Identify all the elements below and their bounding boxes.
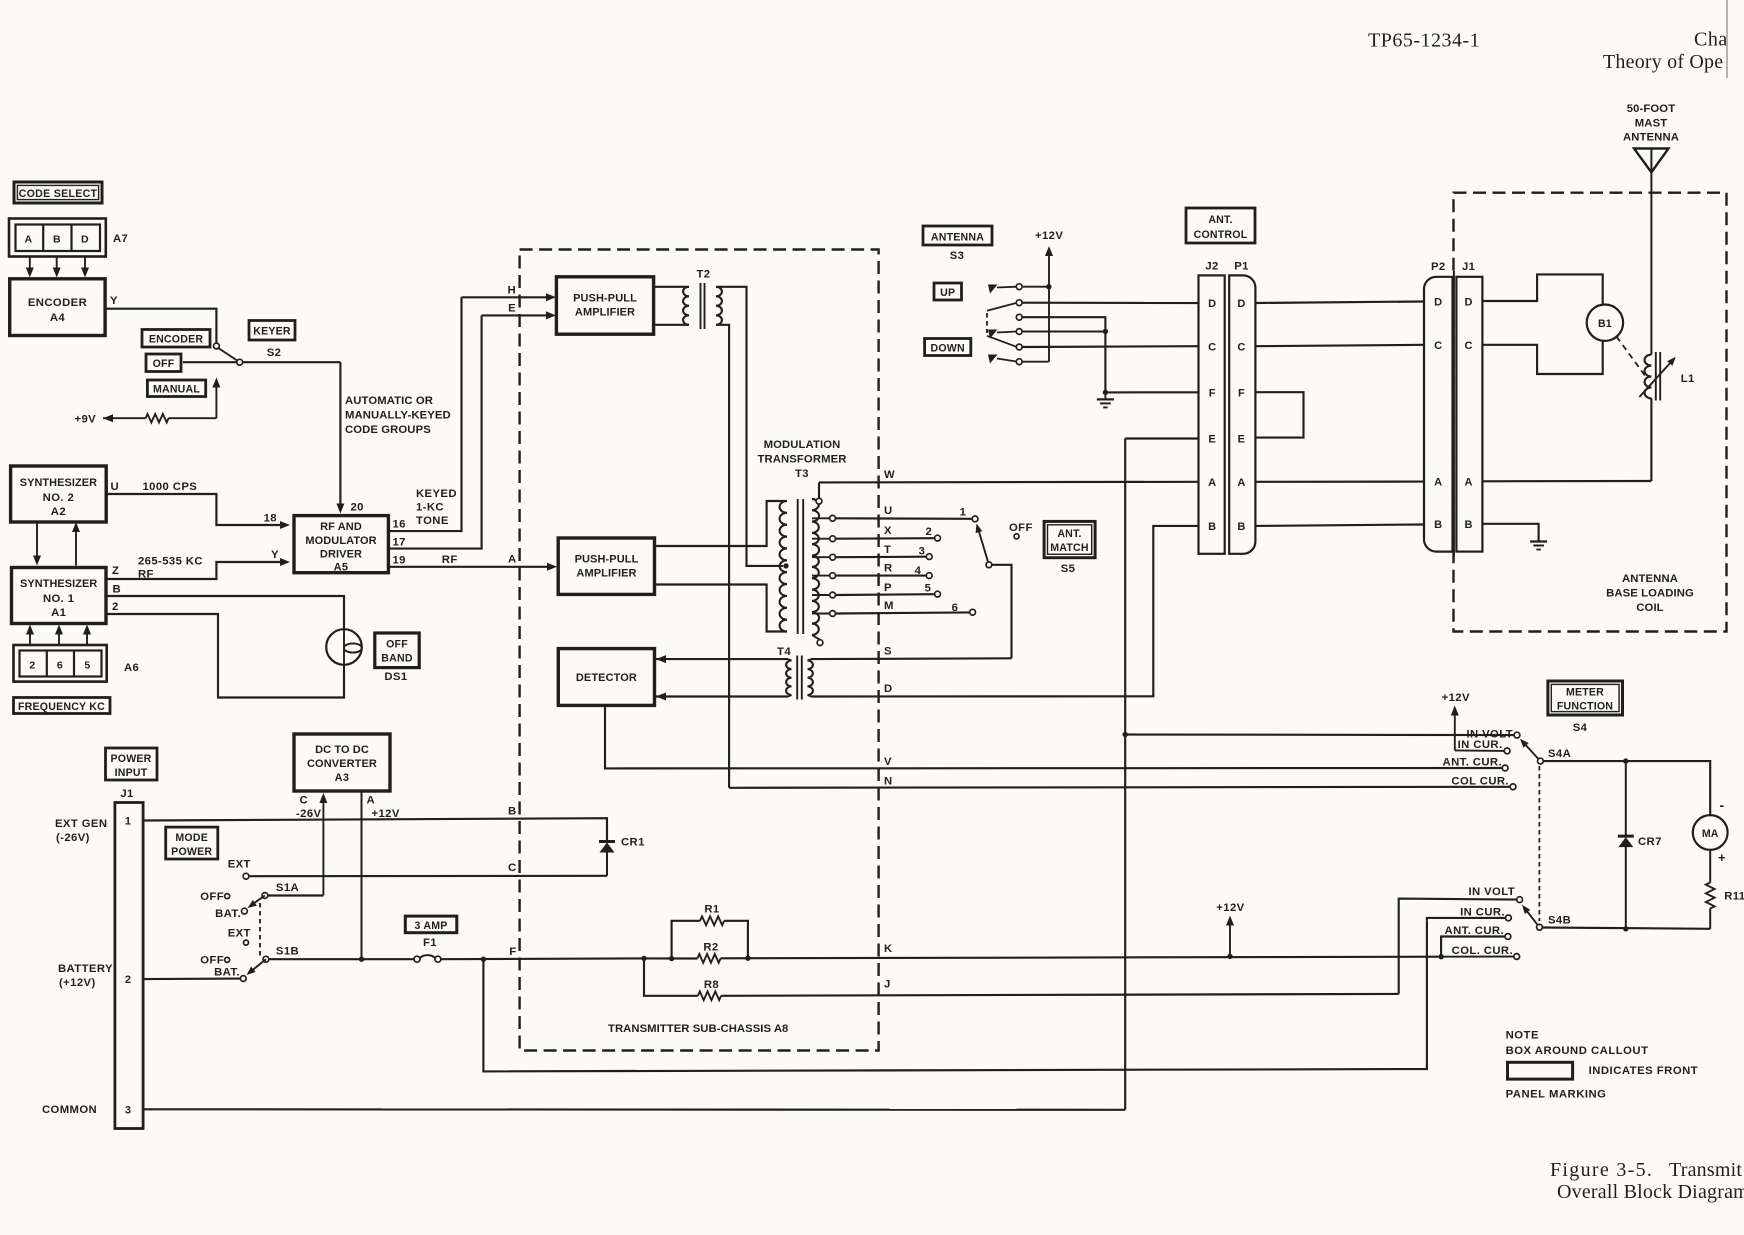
motor B1 <box>1587 305 1623 341</box>
svg-text:3 AMP: 3 AMP <box>415 920 448 932</box>
resistor R2 <box>669 956 674 961</box>
svg-text:TRANSFORMER: TRANSFORMER <box>758 454 847 466</box>
S3 contact 2 wire / net D row <box>1022 302 1198 304</box>
switch S5 contact 3 <box>926 554 932 560</box>
svg-text:L1: L1 <box>1681 373 1695 385</box>
svg-text:D: D <box>1208 298 1216 310</box>
svg-text:S3: S3 <box>950 250 965 262</box>
svg-text:18: 18 <box>264 513 277 525</box>
S3 contact 3 wire to ground bus <box>1022 317 1105 392</box>
OFF BAND label <box>375 633 419 668</box>
svg-text:UP: UP <box>940 287 955 299</box>
svg-text:B: B <box>1208 521 1216 533</box>
svg-text:2: 2 <box>925 526 932 538</box>
svg-text:MAST: MAST <box>1635 118 1667 130</box>
svg-text:-: - <box>1719 797 1724 813</box>
svg-text:3: 3 <box>125 1104 132 1116</box>
S4A IN CUR contact <box>1455 749 1505 752</box>
svg-text:ANTENNA: ANTENNA <box>931 232 984 244</box>
svg-text:INPUT: INPUT <box>115 767 148 779</box>
svg-text:ENCODER: ENCODER <box>149 334 204 346</box>
wire A3 pin A to battery bus <box>361 791 363 959</box>
svg-text:S5: S5 <box>1061 563 1076 575</box>
resistor in +9V line <box>146 414 169 422</box>
wire P1-D to P2-D <box>1255 302 1424 304</box>
svg-text:MANUALLY-KEYED: MANUALLY-KEYED <box>345 410 451 422</box>
wire battery pin 2 to S1B BAT <box>143 978 240 981</box>
transformer T2 primary winding <box>683 287 689 325</box>
svg-text:U: U <box>111 481 120 493</box>
svg-text:S4A: S4A <box>1548 748 1571 760</box>
svg-text:A3: A3 <box>335 772 350 784</box>
svg-text:B: B <box>1465 519 1473 531</box>
wire S4B to meter return <box>1542 928 1710 929</box>
svg-text:16: 16 <box>393 519 406 531</box>
diode CR1 <box>599 840 615 843</box>
T3 tap P <box>812 594 830 596</box>
synthesizer no.1 A1 <box>12 568 107 624</box>
svg-text:BAT.: BAT. <box>214 967 240 979</box>
antenna base loading coil dashed enclosure <box>1454 193 1727 632</box>
svg-text:19: 19 <box>393 555 406 567</box>
svg-text:EXT: EXT <box>228 928 251 940</box>
wire pin 19 RF to push-pull amplifier A <box>388 566 551 568</box>
svg-text:MATCH: MATCH <box>1050 542 1088 554</box>
svg-text:PUSH-PULL: PUSH-PULL <box>575 554 639 566</box>
svg-text:2: 2 <box>112 601 119 613</box>
mechanical link B1 to L1 <box>1617 337 1647 378</box>
frequency wheel assembly A6 <box>14 645 107 682</box>
wire T4 to detector bottom input <box>656 693 666 701</box>
svg-text:F1: F1 <box>423 937 437 949</box>
svg-text:P: P <box>884 582 892 594</box>
svg-text:R11: R11 <box>1724 891 1744 903</box>
svg-text:ANT.: ANT. <box>1057 528 1081 540</box>
svg-text:P1: P1 <box>1234 261 1249 273</box>
svg-text:ANTENNA: ANTENNA <box>1622 573 1678 585</box>
svg-text:F: F <box>1238 388 1245 400</box>
wires A6 to A1 with arrows <box>29 630 31 645</box>
wire A2 to A1 down arrow <box>36 522 38 560</box>
svg-text:C: C <box>1237 341 1245 353</box>
RF and modulator driver A5 <box>294 516 388 573</box>
svg-text:S2: S2 <box>267 347 282 359</box>
transformer T2 secondary winding <box>716 287 722 325</box>
svg-text:COL CUR.: COL CUR. <box>1451 776 1509 788</box>
FREQUENCY KC label <box>14 698 111 714</box>
ANT. CONTROL label <box>1186 208 1255 243</box>
svg-text:D: D <box>1237 298 1245 310</box>
svg-text:N: N <box>884 776 893 788</box>
svg-text:CODE SELECT: CODE SELECT <box>19 188 98 200</box>
svg-text:A4: A4 <box>50 312 66 324</box>
MODE POWER label <box>166 827 218 859</box>
wire amp2 top output to T3 primary top <box>655 501 788 546</box>
METER FUNCTION label <box>1548 681 1623 715</box>
detector <box>558 649 654 706</box>
common wire pin 3 <box>143 1108 1125 1111</box>
S3 pole B arm <box>988 330 998 339</box>
svg-text:KEYED: KEYED <box>416 488 457 500</box>
common return vertical <box>1124 439 1126 1110</box>
svg-text:IN CUR.: IN CUR. <box>1460 907 1505 919</box>
switch S5 contact 5 <box>935 591 941 597</box>
wire E into amplifier <box>482 314 550 316</box>
wire J1-A to L1 <box>1482 480 1651 482</box>
svg-text:MA: MA <box>1702 828 1719 840</box>
svg-text:COL. CUR.: COL. CUR. <box>1452 945 1513 957</box>
svg-text:P2: P2 <box>1431 261 1446 273</box>
svg-text:1000 CPS: 1000 CPS <box>143 481 198 493</box>
svg-text:EXT GEN: EXT GEN <box>55 818 107 830</box>
svg-text:T4: T4 <box>777 646 791 658</box>
svg-text:-26V: -26V <box>296 808 322 820</box>
node encoder contact of S2 <box>214 343 220 349</box>
svg-text:AUTOMATIC OR: AUTOMATIC OR <box>345 395 433 407</box>
svg-text:20: 20 <box>351 502 364 514</box>
svg-text:B: B <box>53 234 61 246</box>
switch S5 contact 2 <box>935 535 941 541</box>
wire amp1 to T2 primary <box>654 286 689 288</box>
wire T4 to detector top input <box>656 655 666 663</box>
switch S5 contact 1 <box>972 516 978 522</box>
svg-text:S4: S4 <box>1573 722 1588 734</box>
MANUAL position label <box>147 380 205 397</box>
T3 tap T <box>812 556 830 558</box>
svg-text:+: + <box>1718 850 1726 865</box>
S3 contact 6 wire to +12V <box>1022 361 1049 363</box>
svg-text:+12V: +12V <box>1442 692 1470 704</box>
wire pin 17 to E <box>388 315 481 548</box>
svg-text:A7: A7 <box>113 233 128 245</box>
svg-text:A1: A1 <box>51 607 66 619</box>
transformer T3 secondary winding <box>812 499 819 635</box>
transformer T4 secondary winding <box>808 661 813 696</box>
svg-text:OFF: OFF <box>200 891 224 903</box>
POWER INPUT label <box>106 748 158 780</box>
svg-text:Y: Y <box>271 549 279 561</box>
svg-text:IN VOLT: IN VOLT <box>1468 886 1515 898</box>
T3 secondary bottom terminal <box>812 635 820 640</box>
svg-text:6: 6 <box>57 660 63 672</box>
code wheel assembly A7 <box>9 219 106 257</box>
net C wire CR1 to S1A EXT <box>249 875 607 878</box>
switch S5 contact 4 <box>926 573 932 579</box>
svg-text:Figure 3-5.: Figure 3-5. <box>1550 1159 1653 1181</box>
switch S5 arm <box>979 530 989 565</box>
svg-text:OFF: OFF <box>200 955 224 967</box>
diode CR7 <box>1625 761 1627 836</box>
svg-text:BOX AROUND CALLOUT: BOX AROUND CALLOUT <box>1506 1045 1649 1057</box>
ANT. MATCH label <box>1044 521 1095 557</box>
svg-text:50-FOOT: 50-FOOT <box>1627 103 1675 115</box>
ENCODER position label <box>142 330 210 348</box>
svg-text:Transmit: Transmit <box>1669 1159 1742 1181</box>
svg-text:BASE LOADING: BASE LOADING <box>1606 588 1694 600</box>
3 AMP label <box>405 916 457 933</box>
svg-text:C: C <box>1465 340 1473 352</box>
svg-text:D: D <box>81 234 89 246</box>
wire pin 16 to H <box>388 297 461 531</box>
transformer T4 primary winding <box>786 661 791 696</box>
wire F junction down to meter line <box>483 921 1427 1072</box>
wire amp2 bottom output to T3 primary bottom <box>655 585 788 632</box>
transformer T3 core <box>797 499 799 634</box>
svg-text:B: B <box>1237 521 1245 533</box>
svg-text:A: A <box>1208 477 1216 489</box>
net J wire <box>721 994 1399 996</box>
wire S1B to fuse F1 <box>269 958 414 960</box>
wire P1-A to P2-A <box>1255 481 1424 483</box>
svg-text:17: 17 <box>393 537 406 549</box>
svg-text:J1: J1 <box>120 788 133 800</box>
S3 gang link <box>986 313 988 333</box>
svg-text:J: J <box>884 979 891 991</box>
DOWN label <box>925 339 971 356</box>
svg-text:D: D <box>884 683 893 695</box>
svg-text:CR1: CR1 <box>621 837 645 849</box>
wire H into amplifier <box>462 296 551 298</box>
S3 contact 4 wire to ground bus <box>1022 331 1105 333</box>
svg-text:DRIVER: DRIVER <box>320 549 362 561</box>
wire S1A to A3 pin C <box>268 894 324 896</box>
svg-text:MODULATOR: MODULATOR <box>305 535 376 547</box>
push-pull amplifier 2 <box>558 538 654 594</box>
fuse F1 <box>414 956 420 962</box>
svg-text:B: B <box>508 806 517 818</box>
svg-text:B: B <box>113 584 122 596</box>
svg-text:DC TO DC: DC TO DC <box>315 744 369 756</box>
svg-text:C: C <box>1434 340 1442 352</box>
svg-text:2: 2 <box>29 660 35 672</box>
wire net K to S4B ANT CUR <box>1441 937 1505 957</box>
page scan edge <box>1727 0 1744 90</box>
T3 tap R <box>812 575 830 577</box>
svg-text:E: E <box>1208 434 1216 446</box>
svg-text:W: W <box>884 469 895 481</box>
svg-text:A: A <box>367 795 376 807</box>
svg-text:J1: J1 <box>1462 261 1475 273</box>
svg-text:A: A <box>1465 477 1473 489</box>
svg-text:T3: T3 <box>795 468 809 480</box>
svg-text:A2: A2 <box>51 506 66 518</box>
transformer T2 core <box>700 283 702 329</box>
wire J2-E common return <box>1125 437 1198 439</box>
svg-text:T2: T2 <box>697 269 711 281</box>
wire T2 secondary top to T3 center tap <box>716 287 783 566</box>
svg-text:C: C <box>299 795 308 807</box>
svg-text:B: B <box>1434 519 1442 531</box>
svg-text:MODE: MODE <box>175 832 208 844</box>
svg-text:F: F <box>509 946 516 958</box>
wire L1 to net A <box>1650 398 1652 481</box>
detector output to net V <box>605 705 1502 768</box>
svg-text:COIL: COIL <box>1636 602 1663 614</box>
svg-text:A: A <box>25 234 33 246</box>
DC to DC converter A3 <box>294 734 390 791</box>
svg-text:Z: Z <box>112 565 119 577</box>
svg-text:FREQUENCY KC: FREQUENCY KC <box>18 701 105 713</box>
svg-text:A6: A6 <box>124 662 139 674</box>
svg-text:INDICATES FRONT: INDICATES FRONT <box>1589 1065 1699 1077</box>
S3 pole A arm <box>988 285 998 294</box>
wire J1-D to motor B1 <box>1482 274 1602 304</box>
svg-text:NOTE: NOTE <box>1506 1030 1539 1042</box>
svg-text:TONE: TONE <box>416 515 449 527</box>
svg-text:D: D <box>1434 297 1442 309</box>
svg-text:A: A <box>1237 477 1245 489</box>
svg-text:C: C <box>1208 341 1216 353</box>
S4 gang link <box>1538 766 1540 921</box>
svg-text:E: E <box>1238 434 1246 446</box>
encoder A4 <box>10 279 105 336</box>
svg-text:NO. 2: NO. 2 <box>43 492 75 504</box>
resistor R8 <box>641 956 646 961</box>
svg-text:R1: R1 <box>704 904 719 916</box>
svg-text:NO. 1: NO. 1 <box>43 593 75 605</box>
net S wire <box>811 657 1012 660</box>
svg-text:A5: A5 <box>334 562 349 574</box>
svg-text:BATTERY: BATTERY <box>58 963 113 975</box>
svg-text:AMPLIFIER: AMPLIFIER <box>575 307 635 319</box>
svg-text:MODULATION: MODULATION <box>764 439 841 451</box>
svg-text:R2: R2 <box>703 942 718 954</box>
switch S4B arm <box>1525 908 1540 927</box>
svg-text:B1: B1 <box>1598 318 1612 330</box>
svg-text:RF AND: RF AND <box>320 521 362 533</box>
wire Y to keyer switch <box>105 309 216 343</box>
svg-text:+9V: +9V <box>75 414 97 426</box>
svg-text:R: R <box>884 563 893 575</box>
svg-text:K: K <box>884 943 893 955</box>
svg-text:AMPLIFIER: AMPLIFIER <box>576 568 636 580</box>
svg-text:POWER: POWER <box>171 846 212 858</box>
svg-text:ANT.: ANT. <box>1208 214 1232 226</box>
svg-text:5: 5 <box>84 660 90 672</box>
svg-text:+12V: +12V <box>1035 230 1063 242</box>
wire S2 to A5 pin 20 <box>339 362 341 508</box>
CODE SELECT front-panel label <box>14 182 102 203</box>
wire T2 secondary bottom to net N <box>716 325 729 788</box>
net D wire to connector J2 pin B <box>811 526 1199 697</box>
wire J1-C to motor B1 <box>1482 341 1602 374</box>
note callout box example <box>1508 1062 1573 1079</box>
svg-text:(-26V): (-26V) <box>56 832 90 844</box>
power connector J1 <box>115 803 143 1129</box>
svg-text:SYNTHESIZER: SYNTHESIZER <box>20 578 97 590</box>
net K wire <box>721 957 1439 959</box>
wire U to A5 pin 18 <box>106 494 284 525</box>
wire net J to S4B IN VOLT <box>1399 899 1517 994</box>
switch S5 contact 6 <box>970 609 976 615</box>
svg-text:A: A <box>508 554 517 566</box>
svg-text:IN CUR.: IN CUR. <box>1458 739 1503 751</box>
svg-text:5: 5 <box>925 583 932 595</box>
T3 tap X <box>812 538 830 540</box>
loop P1-F to P1-E <box>1255 392 1303 437</box>
resistor R11 <box>1709 850 1711 883</box>
resistor R1 <box>672 921 700 959</box>
+12V supply on net K <box>1227 954 1232 959</box>
meter MA <box>1693 815 1728 850</box>
svg-text:S1A: S1A <box>276 882 299 894</box>
svg-text:E: E <box>508 303 516 315</box>
svg-text:265-535 KC: 265-535 KC <box>138 556 203 568</box>
UP label <box>934 283 962 300</box>
svg-text:Overall Block Diagram: Overall Block Diagram <box>1557 1181 1744 1203</box>
svg-text:4: 4 <box>915 565 922 577</box>
svg-text:1: 1 <box>125 816 132 828</box>
svg-text:1: 1 <box>960 507 967 519</box>
ANTENNA label <box>923 226 992 245</box>
wire resistor to manual arrow <box>168 417 216 419</box>
svg-text:OFF: OFF <box>386 639 408 651</box>
svg-text:MANUAL: MANUAL <box>153 384 200 396</box>
T3 secondary top terminal to net W <box>812 499 819 501</box>
svg-text:CONVERTER: CONVERTER <box>307 758 377 770</box>
svg-text:ANT. CUR.: ANT. CUR. <box>1443 757 1502 769</box>
push-pull amplifier 1 <box>556 277 653 334</box>
svg-text:COMMON: COMMON <box>42 1104 97 1116</box>
wire J1-B to ground <box>1482 524 1538 542</box>
wire Z to A5 pin Y <box>106 562 284 579</box>
svg-text:BAND: BAND <box>381 653 413 665</box>
svg-text:3: 3 <box>919 546 926 558</box>
svg-text:U: U <box>884 505 893 517</box>
transformer T4 core <box>796 656 798 700</box>
ground of loading coil <box>1538 535 1540 542</box>
svg-text:+12V: +12V <box>1216 902 1244 914</box>
wire common to S4A IN VOLT <box>1125 733 1514 736</box>
KEYER label <box>249 321 295 341</box>
svg-text:OFF: OFF <box>153 358 175 370</box>
wire A1 to A2 up arrow <box>75 528 77 566</box>
svg-text:RF: RF <box>442 554 458 566</box>
ground for S3 ground bus <box>1103 390 1108 395</box>
svg-text:R8: R8 <box>704 979 719 991</box>
lamp DS1 <box>326 629 362 665</box>
net N wire <box>729 787 1510 788</box>
transmitter sub-chassis A8 dashed enclosure <box>520 250 879 1051</box>
svg-text:6: 6 <box>952 602 959 614</box>
svg-text:KEYER: KEYER <box>253 326 291 338</box>
wire F1 to sub-chassis net F <box>441 957 644 960</box>
svg-text:CR7: CR7 <box>1638 836 1662 848</box>
switch S2 arm <box>218 348 240 363</box>
svg-text:Y: Y <box>110 295 118 307</box>
svg-text:H: H <box>507 285 516 297</box>
svg-text:CONTROL: CONTROL <box>1194 229 1248 241</box>
OFF position label <box>146 354 181 372</box>
T3 tap U <box>812 517 830 519</box>
svg-text:DOWN: DOWN <box>931 343 965 355</box>
svg-text:A: A <box>1434 477 1442 489</box>
svg-text:PUSH-PULL: PUSH-PULL <box>573 293 637 305</box>
T3 tap M <box>812 613 830 615</box>
svg-text:1-KC: 1-KC <box>416 502 444 514</box>
keyer switch S2 wire <box>183 361 340 363</box>
wires A7 to A4 with arrows <box>29 257 31 272</box>
svg-text:TRANSMITTER SUB-CHASSIS A8: TRANSMITTER SUB-CHASSIS A8 <box>608 1023 788 1035</box>
svg-text:Theory of Ope: Theory of Ope <box>1603 51 1723 73</box>
S1 gang link <box>259 903 261 956</box>
svg-text:J2: J2 <box>1205 261 1218 273</box>
svg-text:F: F <box>1209 388 1216 400</box>
variable inductor L1 <box>1645 355 1652 399</box>
svg-text:SYNTHESIZER: SYNTHESIZER <box>20 477 97 489</box>
svg-text:S: S <box>884 646 892 658</box>
svg-text:OFF: OFF <box>1009 522 1033 534</box>
